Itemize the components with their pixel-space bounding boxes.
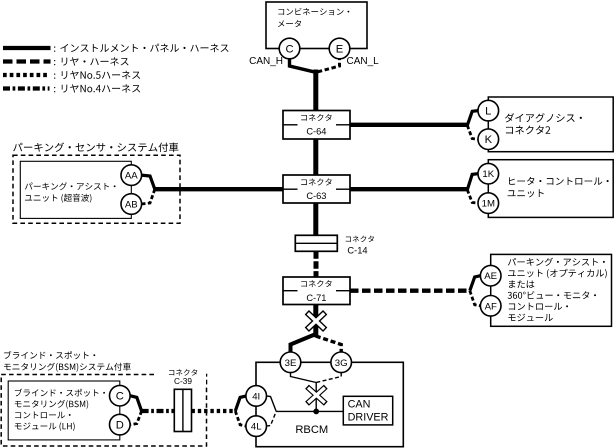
pin E combination meter bbox=[329, 38, 350, 59]
wire main bus C/E to C-64 bbox=[313, 70, 318, 111]
wire C-63 to heater split bbox=[350, 187, 467, 191]
svg-text:DRIVER: DRIVER bbox=[348, 411, 389, 423]
svg-text:C: C bbox=[116, 391, 124, 403]
svg-text:C-71: C-71 bbox=[306, 293, 326, 303]
pin 1K heater control unit bbox=[478, 163, 499, 184]
wire main bus C-63 to C-14 bbox=[313, 203, 318, 235]
pin AE bbox=[480, 265, 501, 286]
no-connection mark X1 bbox=[307, 312, 325, 329]
svg-text:CAN: CAN bbox=[348, 399, 371, 411]
svg-text:C-39: C-39 bbox=[174, 376, 192, 386]
pin 1M heater control unit bbox=[478, 193, 499, 214]
legend label rear-no4-harness bbox=[54, 87, 55, 92]
pin C BSM module bbox=[110, 385, 131, 406]
connector C-39 bbox=[174, 389, 191, 431]
svg-text:4L: 4L bbox=[251, 422, 262, 433]
parking sensor system enclosure bbox=[13, 155, 180, 223]
legend line rear-no4-harness bbox=[3, 86, 50, 90]
legend label rear-no5-harness bbox=[54, 73, 55, 78]
wire branch to pin L bbox=[467, 111, 478, 126]
junction node bbox=[313, 409, 319, 415]
parking sensor system enclosure label bbox=[13, 142, 178, 152]
wire branch to pin 4I bbox=[235, 396, 246, 411]
no-connection mark X2 bbox=[307, 387, 326, 404]
pin 3G RBCM bbox=[331, 352, 352, 373]
wire C-71 to parking assist optical split bbox=[350, 289, 470, 293]
wire branch from pin C bbox=[130, 396, 142, 411]
CAN DRIVER box bbox=[343, 396, 392, 425]
wire rear-no4 BSM to C-39 bbox=[142, 409, 175, 413]
legend line rear-no5-harness bbox=[3, 73, 48, 77]
pin K diagnosis connector bbox=[478, 129, 499, 150]
wire branch to pin 4L bbox=[235, 411, 246, 426]
svg-text:AA: AA bbox=[125, 171, 138, 182]
svg-text:1K: 1K bbox=[482, 169, 494, 180]
connector C-64 bbox=[283, 111, 350, 140]
BSM control module box bbox=[8, 381, 120, 440]
svg-text:CAN_H: CAN_H bbox=[249, 56, 283, 67]
RBCM internal vertical wire bbox=[315, 382, 317, 411]
pin L diagnosis connector bbox=[478, 100, 499, 121]
connector C-63 bbox=[283, 175, 350, 203]
svg-text:K: K bbox=[485, 134, 493, 146]
RBCM internal wire from 3E bbox=[291, 373, 317, 383]
diagnosis connector 2 box bbox=[488, 97, 613, 152]
svg-text:C-14: C-14 bbox=[347, 246, 367, 256]
wire branch to pin K bbox=[467, 125, 478, 139]
RBCM internal horizontal wire bbox=[276, 410, 343, 412]
wire main bus C-64 to C-63 bbox=[313, 139, 318, 175]
wire C-64 to diagnosis split bbox=[350, 123, 467, 127]
wire branch to pin 1K bbox=[467, 174, 478, 190]
pin 4L RBCM bbox=[246, 416, 267, 437]
wire branch to pin AE bbox=[470, 276, 481, 291]
legend line rear-harness bbox=[3, 59, 51, 63]
parking assist unit box bbox=[20, 161, 131, 218]
wire rear-no5 C-39 to RBCM bbox=[192, 409, 236, 413]
svg-text:1M: 1M bbox=[482, 199, 495, 210]
pin C combination meter bbox=[279, 38, 300, 59]
connector C-71 bbox=[283, 277, 350, 305]
wire CAN_L from pin E bbox=[318, 49, 340, 72]
pin D BSM module bbox=[110, 414, 131, 435]
wire branch from pin D bbox=[130, 411, 142, 425]
svg-text:CAN_L: CAN_L bbox=[347, 56, 380, 67]
RBCM internal wire from 4L bbox=[266, 411, 276, 426]
BSM system enclosure bbox=[1, 375, 206, 447]
svg-text:C: C bbox=[285, 44, 293, 56]
svg-text:AB: AB bbox=[125, 199, 138, 210]
svg-text:AF: AF bbox=[485, 301, 497, 312]
wire rear harness C-14 to C-71 bbox=[314, 251, 319, 277]
svg-text:C-64: C-64 bbox=[306, 127, 326, 137]
svg-text:AE: AE bbox=[484, 271, 497, 282]
wire branch to pin 3E bbox=[291, 334, 316, 353]
heater control unit box bbox=[488, 160, 613, 218]
wire C-71 down to splice bbox=[313, 305, 318, 338]
legend label rear-harness bbox=[54, 60, 55, 65]
legend label instrument-panel-harness bbox=[54, 46, 55, 51]
wire parking assist to C-63 bbox=[155, 187, 283, 191]
svg-text:3G: 3G bbox=[335, 358, 348, 369]
pin 4I RBCM bbox=[246, 386, 267, 407]
RBCM internal wire from 3G bbox=[316, 373, 341, 383]
svg-text:RBCM: RBCM bbox=[295, 424, 328, 436]
connector C-14 bbox=[295, 235, 337, 251]
wire branch to pin 3G bbox=[316, 336, 341, 353]
pin AB parking assist unit bbox=[121, 194, 142, 215]
svg-text:L: L bbox=[485, 106, 491, 118]
combination meter box bbox=[266, 2, 367, 49]
svg-text:C-63: C-63 bbox=[306, 191, 326, 201]
parking assist optical / 360 view monitor box bbox=[491, 254, 612, 326]
legend line instrument-panel-harness bbox=[3, 46, 51, 50]
BSM system enclosure label bbox=[4, 351, 95, 359]
pin 3E RBCM bbox=[280, 352, 301, 373]
svg-text:4I: 4I bbox=[252, 391, 260, 402]
svg-text:3E: 3E bbox=[285, 358, 297, 369]
wire branch from pin AB bbox=[141, 189, 155, 204]
pin AF bbox=[480, 296, 501, 317]
wire CAN_H from pin C bbox=[290, 49, 314, 72]
svg-text:E: E bbox=[336, 44, 343, 56]
wire branch from pin AA bbox=[141, 175, 155, 189]
RBCM internal wire from 4I bbox=[266, 396, 276, 412]
wire branch to pin 1M bbox=[467, 190, 478, 203]
wire branch to pin AF bbox=[470, 291, 481, 306]
RBCM box bbox=[256, 362, 403, 446]
pin AA parking assist unit bbox=[121, 165, 142, 186]
svg-text:D: D bbox=[116, 420, 124, 432]
